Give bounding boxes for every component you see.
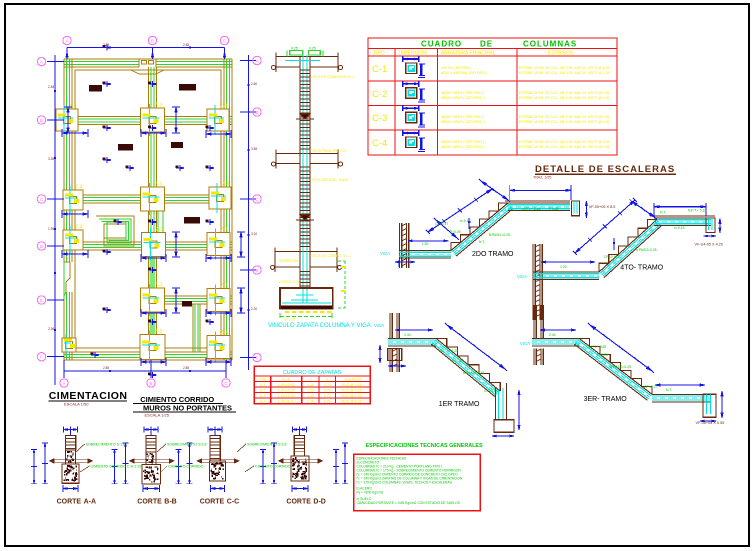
svg-text:0.70: 0.70 <box>324 394 331 398</box>
svg-text:C-C: C-C <box>227 499 239 506</box>
svg-text:CORTE: CORTE <box>57 499 82 506</box>
svg-text:1.50: 1.50 <box>422 242 429 246</box>
svg-text:CORTE: CORTE <box>137 499 162 506</box>
svg-text:ESCALA 1/50: ESCALA 1/50 <box>64 402 89 407</box>
svg-text:h: h <box>326 378 328 382</box>
svg-text:B: B <box>255 110 258 115</box>
svg-text:1.20: 1.20 <box>560 265 567 269</box>
svg-text:CP=0.17: CP=0.17 <box>435 222 448 226</box>
svg-text:Z-4: Z-4 <box>221 227 229 233</box>
svg-text:H: H <box>309 378 312 382</box>
svg-text:C=1.05: C=1.05 <box>284 318 295 322</box>
svg-text:CIMIENTO CORRIDO: CIMIENTO CORRIDO <box>255 465 291 469</box>
svg-text:1.20 x1.20: 1.20 x1.20 <box>278 389 295 393</box>
svg-text:Z-4: Z-4 <box>75 185 83 191</box>
svg-text:VIGA: VIGA <box>517 274 527 279</box>
svg-text:Z-3: Z-3 <box>155 182 163 188</box>
svg-text:4Ø5/8+2Ø1/2 ( 2DO PISO ): 4Ø5/8+2Ø1/2 ( 2DO PISO ) <box>441 96 485 100</box>
svg-text:SOBRECIMIENTO S:1.8: SOBRECIMIENTO S:1.8 <box>247 443 286 447</box>
svg-text:DETALLE DE ESCALERAS: DETALLE DE ESCALERAS <box>535 164 675 175</box>
svg-text:Z-4: Z-4 <box>221 330 229 336</box>
svg-text:TRAZ. 1/25: TRAZ. 1/25 <box>533 176 551 180</box>
svg-text:1.10: 1.10 <box>307 383 314 387</box>
svg-text:4Ø5/8+2Ø1/2 ( 1ER PISO ): 4Ø5/8+2Ø1/2 ( 1ER PISO ) <box>441 91 485 95</box>
svg-text:4Ø5/8+2Ø1/2 ( 2DO PISO ): 4Ø5/8+2Ø1/2 ( 2DO PISO ) <box>441 145 485 149</box>
svg-text:F: F <box>256 355 259 360</box>
svg-text:ADIC.4+Ø8 3/8 ( 2DO PISO): ADIC.4+Ø8 3/8 ( 2DO PISO) <box>441 71 487 75</box>
svg-text:D-D: D-D <box>313 499 325 506</box>
svg-text:P=0.25: P=0.25 <box>450 230 461 234</box>
svg-text:B: B <box>151 38 154 43</box>
svg-text:C-3: C-3 <box>372 113 387 124</box>
svg-text:C-1: C-1 <box>372 64 387 75</box>
svg-text:VIGA PRINCIPAL V-2: VIGA PRINCIPAL V-2 <box>312 149 346 153</box>
svg-text:Ø1/2 @ 0.15 ^: Ø1/2 @ 0.15 ^ <box>341 383 364 387</box>
svg-text:ESTRIBO Ø 3/8: DE COL. 1@ 0.05: ESTRIBO Ø 3/8: DE COL. 1@ 0.05, 4@0.10, … <box>519 66 609 70</box>
svg-text:VF-U4-05 X 4.20: VF-U4-05 X 4.20 <box>695 243 724 247</box>
svg-text:2.85: 2.85 <box>183 366 189 370</box>
svg-text:N.T.: N.T. <box>479 240 485 244</box>
svg-text:2.85: 2.85 <box>103 43 109 47</box>
svg-text:VINCULO ZAPATA COLUMNA Y VIGA: VINCULO ZAPATA COLUMNA Y VIGA <box>268 323 371 329</box>
svg-text:F: F <box>40 355 43 360</box>
svg-text:CUADRO: CUADRO <box>421 40 462 49</box>
svg-text:2.20: 2.20 <box>251 307 257 311</box>
svg-text:B: B <box>149 381 152 386</box>
svg-text:A x B: A x B <box>282 378 291 382</box>
svg-text:P 0.25: P 0.25 <box>549 207 559 211</box>
svg-text:Z-2: Z-2 <box>260 389 265 393</box>
svg-text:Z-4: Z-4 <box>222 182 230 188</box>
svg-text:4Ø5/8+2Ø1/2 ( 1ER PISO ): 4Ø5/8+2Ø1/2 ( 1ER PISO ) <box>441 115 485 119</box>
svg-text:Ø1/2 @ 0.15 ^: Ø1/2 @ 0.15 ^ <box>341 389 364 393</box>
svg-text:A: A <box>62 381 65 386</box>
svg-text:0.70: 0.70 <box>324 383 331 387</box>
svg-text:2.85: 2.85 <box>183 43 189 47</box>
svg-text:N.P.T.+ 2.55: N.P.T.+ 2.55 <box>522 207 540 211</box>
svg-text:A: A <box>40 59 43 64</box>
svg-text:CORTE: CORTE <box>286 499 311 506</box>
svg-text:1ER TRAMO: 1ER TRAMO <box>439 401 480 408</box>
svg-text:2.40: 2.40 <box>549 333 556 337</box>
svg-text:3.28: 3.28 <box>48 157 54 161</box>
svg-text:ESTRIBO Ø 3/8: DE COL. 1@ 0.05: ESTRIBO Ø 3/8: DE COL. 1@ 0.05, 4@0.10, … <box>519 120 609 124</box>
svg-text:4Ø5/8+2Ø1/2 ( 1ER PISO ): 4Ø5/8+2Ø1/2 ( 1ER PISO ) <box>441 140 485 144</box>
svg-text:2.85: 2.85 <box>103 366 109 370</box>
svg-text:4 Ø 3/4 ( ER PISO ): 4 Ø 3/4 ( ER PISO ) <box>441 66 473 70</box>
svg-text:2DO TRAMO: 2DO TRAMO <box>472 251 514 258</box>
svg-text:A-A: A-A <box>84 499 96 506</box>
svg-text:CP=0.17: CP=0.17 <box>484 389 497 393</box>
svg-text:TIPO: TIPO <box>373 51 385 57</box>
svg-text:3.10: 3.10 <box>251 232 257 236</box>
svg-text:ESTRIBO Ø 3/8: DE COL. 1@ 0.05: ESTRIBO Ø 3/8: DE COL. 1@ 0.05, 4@0.10, … <box>519 71 609 75</box>
svg-text:Fy = 4200 Kg/cm2: Fy = 4200 Kg/cm2 <box>357 491 384 495</box>
svg-text:N.P.T.+ 3.85: N.P.T.+ 3.85 <box>588 345 606 349</box>
svg-text:ARMATURA PRINCIPAL: ARMATURA PRINCIPAL <box>441 51 496 57</box>
svg-text:Z-4: Z-4 <box>69 104 77 110</box>
svg-text:VIGA: VIGA <box>374 323 384 328</box>
svg-text:ESTRIBO Ø 3/8: DE COL. 1@ 0.05: ESTRIBO Ø 3/8: DE COL. 1@ 0.05, 4@0.10, … <box>519 115 609 119</box>
svg-text:B PASO=0.25: B PASO=0.25 <box>463 371 484 375</box>
svg-text:CIMIENTO CORRIDO C:H 1:10: CIMIENTO CORRIDO C:H 1:10 <box>91 465 142 469</box>
svg-text:Z-4: Z-4 <box>260 400 265 404</box>
svg-text:e=0.15: e=0.15 <box>674 226 685 230</box>
svg-text:C-2: C-2 <box>372 89 387 100</box>
svg-text:Ø1/2 @ 0.15 ^: Ø1/2 @ 0.15 ^ <box>341 394 364 398</box>
svg-text:E: E <box>255 268 258 273</box>
svg-text:CAPACIDAD PORTANTE = 0.85 Kg/: CAPACIDAD PORTANTE = 0.85 Kg/cm2 CON EST… <box>357 501 461 505</box>
svg-text:VF-05+05 X 0.55: VF-05+05 X 0.55 <box>696 421 725 425</box>
svg-text:2.48: 2.48 <box>48 85 54 89</box>
svg-text:1.10: 1.10 <box>307 389 314 393</box>
svg-text:N.T.: N.T. <box>666 388 672 392</box>
svg-text:ESTRIBO Ø 3/8: DE COL. 1@ 0.05: ESTRIBO Ø 3/8: DE COL. 1@ 0.05, 4@0.10, … <box>519 145 609 149</box>
svg-text:ESTRIBO Ø 3/8: DE COL. 1@ 0.05: ESTRIBO Ø 3/8: DE COL. 1@ 0.05, 4@0.10, … <box>519 96 609 100</box>
svg-text:ESCALA 1/25: ESCALA 1/25 <box>145 413 170 418</box>
svg-text:ESPECIFICACIONES TECNICAS GENE: ESPECIFICACIONES TECNICAS GENERALES <box>366 443 484 449</box>
svg-text:4TO- TRAMO: 4TO- TRAMO <box>620 264 663 271</box>
svg-text:2.36: 2.36 <box>48 327 54 331</box>
svg-text:SOBRECIMIENTO S:1.8: SOBRECIMIENTO S:1.8 <box>86 443 125 447</box>
svg-text:Z-4: Z-4 <box>75 225 83 231</box>
svg-text:e=0.15: e=0.15 <box>460 219 471 223</box>
svg-text:CUADRO DE ZAPATAS: CUADRO DE ZAPATAS <box>283 370 342 376</box>
svg-text:B PASO=0.25: B PASO=0.25 <box>610 365 631 369</box>
svg-text:0.70: 0.70 <box>324 389 331 393</box>
svg-text:2.40: 2.40 <box>404 333 411 337</box>
svg-text:CP=0.17: CP=0.17 <box>604 255 617 259</box>
svg-text:CP=0.17: CP=0.17 <box>644 385 657 389</box>
svg-text:P=0.25: P=0.25 <box>452 359 463 363</box>
svg-text:Z-4: Z-4 <box>221 283 229 289</box>
svg-text:1.95: 1.95 <box>48 227 54 231</box>
svg-text:2.60: 2.60 <box>251 82 257 86</box>
svg-text:C-4: C-4 <box>372 138 387 149</box>
svg-text:DIMENSION: DIMENSION <box>399 51 428 57</box>
svg-text:A: A <box>255 58 258 63</box>
svg-text:N.P.T.+ 1.25: N.P.T.+ 1.25 <box>440 349 458 353</box>
svg-text:B-B: B-B <box>164 499 176 506</box>
svg-text:0.25: 0.25 <box>309 47 316 51</box>
svg-text:VIGA SECUND. 25x20: VIGA SECUND. 25x20 <box>312 178 348 182</box>
svg-text:CIMENTACION: CIMENTACION <box>49 390 128 402</box>
svg-text:Z-3: Z-3 <box>260 394 265 398</box>
svg-text:1.40 x1.40: 1.40 x1.40 <box>278 400 295 404</box>
svg-text:A: A <box>65 38 68 43</box>
svg-text:ESTRIBO Ø 3/8: DE COL. 1@ 0.05: ESTRIBO Ø 3/8: DE COL. 1@ 0.05, 4@0.10, … <box>519 91 609 95</box>
svg-text:1.10: 1.10 <box>307 394 314 398</box>
svg-text:ACERO Ø: ACERO Ø <box>345 378 362 382</box>
svg-text:Z-4: Z-4 <box>220 104 228 110</box>
svg-text:B: B <box>40 118 43 123</box>
svg-text:B PASO=0.25: B PASO=0.25 <box>489 233 510 237</box>
svg-text:TIPO: TIPO <box>258 378 267 382</box>
svg-text:Z-3: Z-3 <box>156 227 164 233</box>
svg-text:CIMIENTO CORRIDO: CIMIENTO CORRIDO <box>168 465 204 469</box>
svg-text:3.55: 3.55 <box>251 147 257 151</box>
svg-text:VF-05+05 X 8.5: VF-05+05 X 8.5 <box>589 205 616 209</box>
svg-text:VIGA DE CONEXION V-1: VIGA DE CONEXION V-1 <box>312 75 353 79</box>
svg-text:SOBRECIM.: SOBRECIM. <box>279 259 299 263</box>
svg-text:CORTE: CORTE <box>200 499 225 506</box>
svg-text:Z-1: Z-1 <box>260 383 265 387</box>
svg-text:P=0.25: P=0.25 <box>597 353 608 357</box>
svg-text:1.10: 1.10 <box>307 400 314 404</box>
svg-text:ESTRIBO Ø 3/8: DE COL. 1@ 0.05: ESTRIBO Ø 3/8: DE COL. 1@ 0.05, 4@0.10, … <box>519 140 609 144</box>
svg-text:1.50 x1.00: 1.50 x1.00 <box>278 394 295 398</box>
svg-text:SOBRECIMIENTO S:1.8: SOBRECIMIENTO S:1.8 <box>167 443 206 447</box>
svg-text:N.P.T.+ 5.10: N.P.T.+ 5.10 <box>688 209 706 213</box>
svg-text:MUROS NO PORTANTES: MUROS NO PORTANTES <box>143 404 232 413</box>
svg-text:0.25: 0.25 <box>291 47 298 51</box>
svg-text:DE: DE <box>480 40 493 49</box>
svg-text:Z-3: Z-3 <box>155 283 163 289</box>
svg-text:B PASO=0.25: B PASO=0.25 <box>636 248 657 252</box>
svg-text:N.T.: N.T. <box>660 210 666 214</box>
svg-text:VIGA: VIGA <box>380 251 390 256</box>
svg-text:Z-3: Z-3 <box>155 103 163 109</box>
svg-text:1.50 x1.50: 1.50 x1.50 <box>278 383 295 387</box>
svg-text:Ø1/2 @ 0.15 ^: Ø1/2 @ 0.15 ^ <box>341 400 364 404</box>
svg-text:f'c = 175 Kg/cm2 COLUMNAS ,VI: f'c = 175 Kg/cm2 COLUMNAS ,VIGAS ,TECHOS… <box>357 481 453 485</box>
svg-text:ESTRIBOS: ESTRIBOS <box>548 51 574 57</box>
svg-text:CORTE COL.: CORTE COL. <box>279 280 301 284</box>
svg-text:E: E <box>40 298 43 303</box>
svg-text:3ER- TRAMO: 3ER- TRAMO <box>584 396 628 403</box>
svg-text:VIGA DE CIMENT. VC-1: VIGA DE CIMENT. VC-1 <box>312 254 351 258</box>
svg-text:0.70: 0.70 <box>324 400 331 404</box>
svg-text:VIGA: VIGA <box>520 341 530 346</box>
svg-text:4Ø5/8+2Ø1/2 ( 2DO PISO ): 4Ø5/8+2Ø1/2 ( 2DO PISO ) <box>441 120 485 124</box>
svg-text:COLUMNAS: COLUMNAS <box>523 40 577 49</box>
svg-text:Z-3: Z-3 <box>155 329 163 335</box>
